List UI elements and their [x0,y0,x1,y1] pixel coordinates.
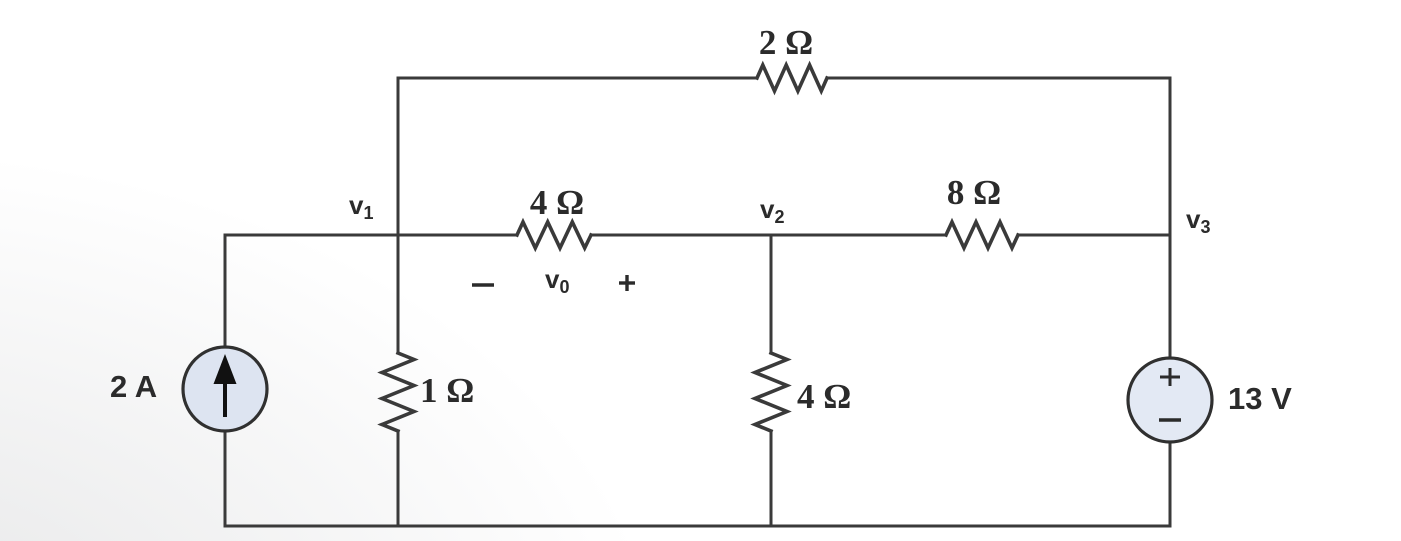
svg-text:2 Ω: 2 Ω [759,23,813,62]
wire v2 vertical lower [770,431,773,526]
wire middle horizontal center [591,234,946,237]
wire top: v1 to v3 [398,78,757,235]
svg-text:v3: v3 [1186,204,1210,237]
svg-text:13 V: 13 V [1228,381,1292,416]
current source I1 circle [183,347,267,431]
wire v1 vertical upper [397,235,400,353]
resistor R 2ohm zigzag [757,65,827,91]
svg-text:2 A: 2 A [110,369,157,404]
wire v2 vertical upper [770,235,773,353]
wire v3 vertical to source [1169,235,1172,357]
wire middle horizontal right [1018,234,1170,237]
resistor R 4ohm horizontal zigzag [517,222,591,248]
resistor R 4ohm vertical zigzag [755,353,787,431]
wire voltage source bottom lead [1169,443,1172,526]
svg-text:1 Ω: 1 Ω [420,371,474,410]
resistor R 1ohm vertical zigzag [382,353,414,431]
current source arrow [223,380,227,417]
svg-text:4 Ω: 4 Ω [530,183,584,222]
wire current source bottom lead [224,433,227,526]
wire bottom rail [225,525,1170,528]
svg-text:4 Ω: 4 Ω [797,377,851,416]
wire middle: current source top to v1 [224,235,227,345]
label minus v0 [472,283,494,287]
wire middle horizontal left [225,234,517,237]
voltage source plus [1160,368,1180,386]
svg-text:8 Ω: 8 Ω [947,173,1001,212]
svg-text:v1: v1 [349,190,373,223]
wire top right segment [827,78,1170,235]
voltage source minus [1159,418,1181,422]
svg-text:v0: v0 [545,264,569,297]
svg-text:v2: v2 [760,194,784,227]
voltage source V1 circle [1128,358,1212,442]
label plus v0 [619,275,635,291]
resistor R 8ohm zigzag [946,222,1018,248]
wire v1 vertical lower [397,431,400,526]
